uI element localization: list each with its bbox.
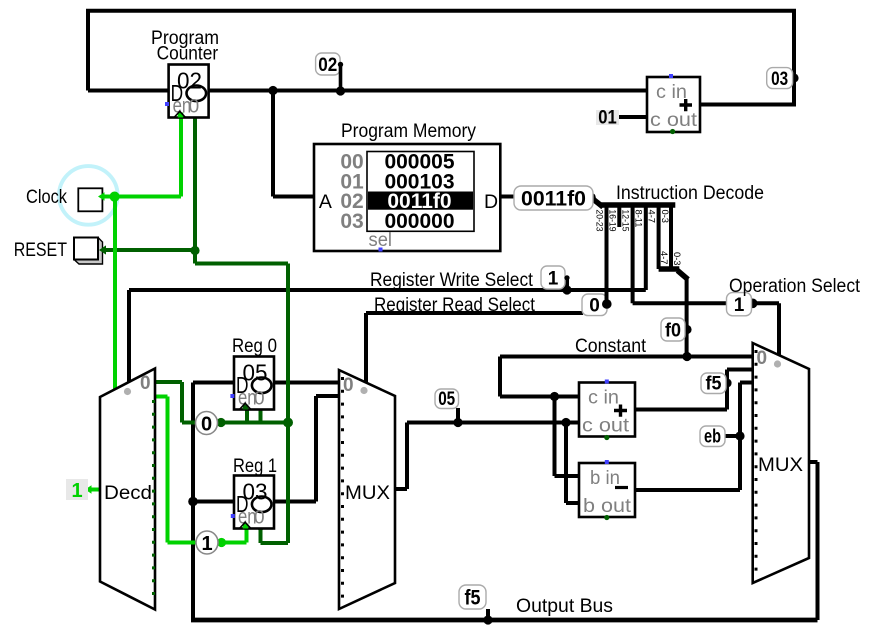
junction node reset branch — [190, 246, 199, 255]
svg-text:c out: c out — [582, 415, 630, 437]
junction node output bus probe f5 tap — [483, 615, 492, 624]
wire decoder output 0 — [156, 382, 196, 423]
wire reset net (dark green) — [101, 118, 289, 544]
wire Reg1 Q to MUX — [275, 396, 339, 502]
svg-text:01: 01 — [598, 108, 617, 129]
svg-text:Program Memory: Program Memory — [341, 121, 476, 142]
wire adder2 result to MUX2 — [635, 370, 753, 410]
wire reg0 enable rail — [221, 406, 288, 423]
svg-text:0: 0 — [254, 507, 265, 528]
junction node constant probe f0 tap — [682, 325, 691, 334]
splitter SP2 constant combine — [659, 269, 688, 357]
wire oval1 to Reg1 clock — [222, 526, 247, 543]
svg-text:b out: b out — [583, 495, 632, 517]
probe 03 — [767, 68, 793, 90]
svg-text:12-15: 12-15 — [620, 210, 631, 232]
svg-text:f5: f5 — [706, 374, 722, 395]
register Reg 1 — [231, 476, 274, 529]
wire splitter leg bits 4-7 — [657, 205, 661, 269]
svg-text:Output Bus: Output Bus — [516, 596, 613, 617]
wire top feedback loop (PC Q -> adder -> PC D) — [88, 11, 794, 197]
junction node operation-select probe tap — [748, 299, 758, 309]
wire probe 05 tap — [456, 408, 460, 423]
svg-text:1: 1 — [201, 533, 212, 555]
svg-text:RESET: RESET — [14, 240, 68, 261]
reset button U-RST — [74, 238, 103, 265]
multiplexer MUX2 (result select) — [753, 343, 809, 583]
junction node clock branch — [110, 192, 120, 202]
svg-text:0: 0 — [589, 296, 600, 317]
constant 01 — [596, 108, 619, 129]
probe 02 — [316, 53, 344, 91]
junction node write-back to Reg1 D — [188, 497, 198, 507]
wire register read select — [366, 313, 583, 383]
junction node memory D / splitter — [586, 193, 596, 203]
wire to memory A input — [273, 91, 314, 197]
wire write-back to Reg D inputs — [193, 383, 234, 502]
svg-text:0: 0 — [201, 414, 212, 436]
svg-text:0: 0 — [189, 96, 200, 117]
probe 0011f0 — [514, 186, 593, 211]
oval indicator 1 (reg1 write pulse) — [196, 531, 218, 555]
svg-text:0: 0 — [343, 375, 354, 396]
svg-text:0-3: 0-3 — [659, 210, 670, 224]
junction node sub result probe eb tap — [735, 431, 744, 440]
decoder Decd — [100, 369, 155, 610]
splitter SP1 instruction decode spine — [591, 198, 675, 305]
svg-text:c in: c in — [656, 81, 687, 103]
wire memory D output — [500, 195, 516, 199]
wire splitter leg bits 20-23 — [605, 205, 609, 304]
multiplexer MUX1 (register read mux) — [339, 370, 395, 609]
junction node constant to adder/sub — [550, 392, 559, 401]
probe f5 (adder result) — [701, 373, 726, 395]
probe f5 (output bus) — [459, 585, 486, 610]
junction node reset to reg0 rail — [283, 418, 293, 428]
oval indicator 0 (reg0 write pulse) — [196, 412, 218, 436]
svg-text:16-19: 16-19 — [607, 210, 618, 232]
junction node oval1 output — [217, 538, 226, 547]
junction node oval0 output — [216, 418, 225, 427]
probe 1 operation select — [727, 293, 752, 316]
junction node probe 03 tap — [789, 73, 798, 82]
svg-text:Instruction Decode: Instruction Decode — [616, 183, 764, 204]
wire PC Q to top adder — [209, 89, 647, 93]
pin Reg0 enable — [258, 406, 263, 411]
svg-text:Constant: Constant — [575, 336, 647, 357]
svg-text:c out: c out — [650, 109, 698, 131]
probe eb (subtractor result) — [700, 426, 725, 448]
svg-text:4-7: 4-7 — [646, 210, 657, 224]
probe 1 register write select — [541, 266, 570, 290]
svg-text:Register Read Select: Register Read Select — [374, 295, 536, 316]
junction node constant branch — [682, 352, 691, 361]
svg-text:Register Write Select: Register Write Select — [370, 270, 534, 291]
subtractor U-SUB — [579, 460, 635, 520]
pin Reg1 enable — [258, 526, 263, 531]
clock highlight halo — [59, 166, 118, 225]
probe f0 constant — [661, 318, 685, 342]
svg-text:A: A — [319, 191, 332, 213]
wire clock net (bright green) — [87, 113, 247, 543]
svg-text:b in: b in — [590, 467, 620, 489]
svg-text:Counter: Counter — [157, 44, 219, 65]
svg-text:05: 05 — [438, 389, 455, 410]
decoder unconnected output stubs (dashed) — [152, 400, 155, 604]
svg-text:0-3: 0-3 — [671, 252, 682, 266]
svg-text:0011f0: 0011f0 — [521, 188, 586, 211]
constant 1 (decoder input) — [66, 479, 88, 502]
svg-text:D: D — [484, 191, 498, 213]
junction node adder result probe f5 tap — [722, 378, 731, 387]
wire splitter leg bits 8-11 — [644, 205, 648, 290]
junction node PC-bus probe 02 tap — [336, 86, 345, 95]
svg-text:03: 03 — [771, 69, 788, 90]
svg-text:MUX: MUX — [345, 483, 390, 504]
wire subtractor result to MUX2 — [635, 383, 753, 491]
wire decoder output 1 — [156, 397, 197, 543]
svg-text:03: 03 — [340, 210, 363, 233]
svg-text:Clock: Clock — [26, 187, 67, 208]
svg-text:0: 0 — [140, 373, 151, 394]
wire decoder constant 1 stub — [87, 488, 101, 492]
clock output pin arrow — [98, 192, 105, 201]
wire Reg0 Q to MUX — [275, 381, 339, 385]
svg-text:0: 0 — [757, 348, 768, 369]
program counter register U-PC — [165, 65, 209, 118]
svg-text:02: 02 — [318, 55, 337, 76]
junction node PC-bus to memory A — [268, 86, 277, 95]
wire register write select — [129, 278, 818, 620]
wire splitter leg bits 12-15 — [631, 205, 635, 303]
svg-text:20-23: 20-23 — [594, 210, 605, 232]
adder U-ADD1 (PC increment) — [647, 74, 700, 134]
svg-text:8-11: 8-11 — [633, 210, 644, 228]
wire constant distribution — [500, 357, 753, 477]
svg-text:000000: 000000 — [384, 210, 454, 233]
wire probe f5 output tap — [486, 609, 490, 620]
svg-text:f0: f0 — [665, 321, 681, 342]
wire constant f0 vertical — [685, 278, 689, 357]
svg-text:Reg 1: Reg 1 — [233, 456, 277, 477]
svg-text:c in: c in — [588, 387, 619, 409]
clock component U-CLK — [78, 188, 102, 211]
svg-text:eb: eb — [704, 427, 721, 448]
svg-text:1: 1 — [71, 480, 82, 502]
svg-text:Decd: Decd — [104, 483, 152, 504]
svg-text:1: 1 — [734, 295, 745, 316]
svg-text:Reg 0: Reg 0 — [232, 336, 277, 357]
wire splitter leg bits 16-19 — [617, 205, 621, 227]
junction node write-select probe tap — [562, 285, 571, 294]
svg-text:4-7: 4-7 — [658, 251, 669, 265]
svg-text:MUX: MUX — [758, 455, 803, 476]
junction node operand bus probe 05 tap — [453, 418, 462, 427]
svg-text:1: 1 — [548, 269, 559, 290]
probe 05 (operand A) — [435, 389, 459, 410]
adder U-ADD2 — [579, 380, 635, 441]
wire PC D input — [88, 89, 169, 93]
reset output pin arrow — [99, 245, 106, 254]
program memory U-MEM — [314, 144, 500, 252]
wire splitter leg bits 0-3 — [669, 205, 673, 269]
svg-text:f5: f5 — [465, 587, 481, 610]
wire output bus — [193, 383, 818, 621]
wire operation select — [633, 303, 779, 356]
register Reg 0 — [230, 357, 274, 410]
probe 0 register read select — [582, 292, 612, 317]
pin arrow decoder constant input — [85, 485, 92, 494]
svg-text:0: 0 — [254, 388, 265, 409]
junction node operand bus to sub — [561, 418, 570, 427]
wire adder1 increment stub — [619, 115, 647, 119]
svg-text:Operation Select: Operation Select — [729, 276, 861, 297]
wire operand A bus from MUX — [395, 423, 579, 504]
